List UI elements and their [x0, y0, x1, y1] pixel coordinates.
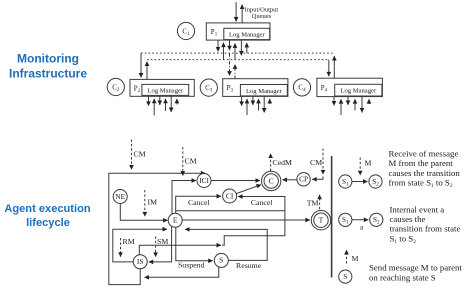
svg-text:Log Manager: Log Manager — [340, 88, 377, 95]
box Log Manager (P2 inner) — [142, 84, 189, 95]
wire: P1 up-arrow b — [223, 43, 225, 60]
wire: P1 up-arrow f — [246, 43, 248, 53]
svg-text:Queues: Queues — [252, 13, 272, 20]
svg-text:Log Manager: Log Manager — [246, 88, 283, 95]
svg-text:from state S1 to S2: from state S1 to S2 — [389, 178, 453, 190]
svg-text:M: M — [365, 159, 372, 168]
svg-text:Cancel: Cancel — [188, 198, 210, 207]
wire: P2 up to bus — [146, 62, 148, 80]
legend1 dashed M arrow — [359, 158, 361, 176]
circle C2 — [107, 78, 124, 95]
circle NE — [113, 190, 127, 204]
wire: E-side link to cancel return path — [176, 210, 285, 212]
wire: S bottom-left to IS loop — [145, 267, 219, 277]
svg-text:E: E — [173, 216, 178, 225]
circle C4 — [293, 79, 310, 96]
wire: P3 queue arrows — [241, 96, 243, 105]
svg-text:M: M — [352, 254, 359, 263]
svg-text:on reaching state S: on reaching state S — [369, 273, 436, 283]
svg-text:transition from state: transition from state — [390, 224, 461, 234]
dashed msg: RM — [120, 238, 122, 257]
svg-text:ICI: ICI — [199, 176, 209, 185]
circle C1 — [177, 22, 194, 39]
svg-text:Internal event a: Internal event a — [390, 204, 445, 214]
svg-text:lifecycle: lifecycle — [26, 217, 70, 229]
legend2 arrow — [352, 219, 368, 221]
wire: dash-dot P3 up — [234, 64, 236, 78]
wire: S right-up to E (Resume) — [185, 229, 267, 260]
wire: P1 down-arrow e — [240, 40, 242, 55]
wire: E down to S (Suspend) — [176, 227, 213, 260]
svg-text:Receive of message: Receive of message — [389, 149, 459, 159]
circle CP — [297, 173, 310, 186]
circle C3 — [200, 79, 217, 96]
legend3 dashed M arrow up — [346, 250, 348, 264]
circle S — [214, 253, 228, 267]
wire: CI to C diagonal — [236, 185, 261, 194]
svg-text:TM: TM — [307, 199, 319, 208]
wire: lower dotted bus line — [147, 59, 329, 61]
circle IS — [133, 255, 147, 269]
svg-text:T: T — [319, 216, 324, 225]
box P3 — [223, 79, 288, 97]
wire: IS up-right path with mid arrow — [139, 245, 221, 255]
wire: ICI to C — [211, 180, 260, 182]
wire: bus down into P4 — [328, 60, 330, 77]
wire: arrow down into P1 top (input queue) — [235, 2, 237, 22]
wire: P1 down-arrow c — [229, 40, 231, 50]
box P4 — [317, 78, 383, 96]
box Log Manager (P3 inner) — [240, 85, 287, 96]
svg-text:CI: CI — [226, 191, 234, 200]
svg-text:NE: NE — [115, 192, 125, 201]
svg-text:Cancel: Cancel — [251, 198, 273, 207]
wire: arrow up from P1 top (output queue) — [241, 5, 243, 23]
svg-text:CM: CM — [310, 158, 322, 167]
svg-text:S: S — [219, 256, 223, 265]
svg-text:Log Manager: Log Manager — [147, 88, 184, 95]
dashed msg: IM into NE-E line — [144, 190, 146, 216]
dashed msg: CM down into CP — [322, 148, 324, 174]
dashed msg: SM — [155, 237, 157, 257]
box Log Manager (P4 inner) — [335, 84, 382, 96]
svg-text:Monitoring: Monitoring — [17, 52, 79, 66]
circle CI — [223, 189, 237, 203]
wire: E to CI (Cancel) — [176, 196, 221, 213]
svg-text:RM: RM — [123, 237, 135, 246]
svg-text:S1 to S2: S1 to S2 — [390, 233, 417, 245]
dashed msg: CM into ICI — [182, 147, 184, 176]
svg-text:causes the: causes the — [390, 214, 426, 224]
dashed msg: CM into top line — [131, 140, 133, 170]
svg-text:IM: IM — [148, 198, 158, 207]
wire: E down-left to IS (SM) — [149, 227, 172, 262]
dashed msg: CedM up from C — [270, 154, 272, 172]
legend3 circle S — [339, 270, 352, 283]
wire: E to ICI — [172, 181, 196, 214]
wire: P1 up-arrow d — [234, 43, 236, 59]
svg-text:causes the transition: causes the transition — [389, 168, 461, 178]
wire: P2 queue arrows — [148, 96, 150, 106]
wire: NE to E — [120, 204, 167, 221]
wire: CP to C — [283, 179, 298, 181]
svg-text:Send message M to parent: Send message M to parent — [369, 262, 462, 272]
svg-text:Suspend: Suspend — [178, 260, 205, 269]
svg-text:a: a — [360, 224, 364, 232]
circle C (double) — [262, 171, 281, 190]
svg-text:CP: CP — [299, 175, 308, 184]
wire: upper dotted bus line — [141, 52, 334, 54]
wire: dash-dot P1 to P3 — [229, 54, 231, 76]
wire: P4 queue arrows — [333, 97, 335, 106]
svg-text:CM: CM — [185, 157, 197, 166]
svg-text:Agent execution: Agent execution — [4, 203, 91, 215]
legend1 circles S1 S2 — [339, 175, 352, 188]
box P1 — [206, 23, 270, 40]
legend2 circles S1 S2 — [339, 213, 352, 226]
dashed msg: TM up from T — [319, 195, 321, 210]
svg-text:C: C — [269, 176, 274, 185]
svg-text:CM: CM — [134, 150, 146, 159]
svg-text:Resume: Resume — [236, 261, 262, 270]
svg-text:IS: IS — [137, 257, 144, 266]
wire: P1 down-arrow a — [217, 40, 219, 51]
circle T (double) — [311, 211, 330, 230]
svg-text:Infrastructure: Infrastructure — [9, 67, 87, 81]
svg-text:M from the parent: M from the parent — [389, 158, 454, 168]
wire: P4 up to bus — [333, 56, 335, 78]
wire: bus down into P2 — [140, 53, 142, 77]
box Log Manager (P1 inner) — [224, 28, 270, 39]
svg-text:CedM: CedM — [273, 158, 293, 167]
svg-text:SM: SM — [157, 237, 168, 246]
wire: continuation to CI (Cancel) — [222, 197, 285, 246]
circle E — [168, 213, 182, 227]
wire: E to T — [182, 219, 310, 221]
separator line — [331, 156, 333, 278]
box P2 — [130, 79, 194, 96]
legend1 arrow — [352, 181, 368, 183]
svg-text:Log Manager: Log Manager — [229, 31, 266, 38]
svg-text:S: S — [343, 272, 347, 281]
wire: IS left-up to E (RM) — [113, 229, 167, 262]
circle ICI — [197, 174, 211, 188]
wire: big loop IS bottom to ICI top — [109, 173, 206, 284]
